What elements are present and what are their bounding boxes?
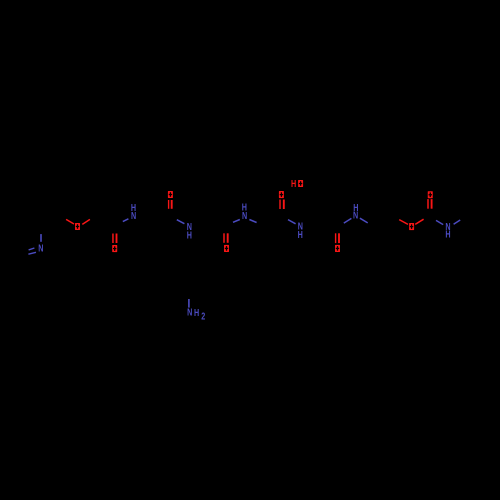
carbonyl oxygen O4 label (red box with plus counter)	[224, 245, 229, 252]
carbonyl C=O #3 double bond (red half, line 2)	[227, 233, 229, 243]
svg-text:N: N	[38, 242, 43, 253]
wire: C(=O)#5-N bond (blue half)	[344, 218, 352, 223]
carbonyl C=O #4 double bond (red half, line 2)	[283, 200, 285, 210]
svg-text:N: N	[242, 210, 247, 221]
svg-text:N: N	[353, 210, 358, 221]
svg-text:H: H	[298, 229, 303, 240]
wire: C(=O)#4-N bond (blue half)	[288, 220, 296, 224]
wire: C(=O)#2-N bond (blue half)	[177, 220, 185, 224]
wire: C(=O)#3-N bond (blue half)	[233, 220, 240, 223]
carbonyl C=O #2 double bond (red half, line 1)	[168, 200, 170, 209]
wire: O1-CH2 bond right (red half)	[82, 219, 90, 224]
svg-text:H: H	[291, 178, 296, 189]
svg-text:H: H	[187, 229, 192, 240]
carbonyl oxygen O7 label (red box with plus counter)	[335, 245, 340, 252]
wire: CH2-O1 bond left (red half)	[66, 219, 74, 224]
carbonyl C=O #5 double bond (red half, line 2)	[338, 233, 340, 243]
wire: pyridine N1=C6 double bond (blue half, line 1)	[29, 248, 35, 250]
svg-text:N: N	[187, 307, 192, 318]
wire: C(=O)#1-N bond (blue half)	[123, 219, 129, 222]
ester oxygen O8 label (red box with plus counter)	[409, 223, 414, 230]
svg-text:2: 2	[201, 310, 205, 321]
carbonyl oxygen O5 label (red box with plus counter)	[279, 191, 284, 198]
carbonyl C=O #4 double bond (red half, line 1)	[279, 200, 281, 210]
wire: N-CH2 bond (blue half)	[360, 218, 368, 223]
carbonyl oxygen O2 label (red box with plus counter)	[112, 245, 117, 252]
carbonyl C=O #1 double bond (red half, line 1)	[112, 234, 114, 244]
carbonyl C=O #2 double bond (red half, line 2)	[171, 200, 173, 209]
carbonyl C=O #1 double bond (red half, line 2)	[116, 234, 118, 244]
wire: pyridine N1=C6 double bond (blue half, line 2)	[28, 252, 36, 254]
svg-text:H: H	[194, 307, 199, 318]
wire: O8-C(=O) bond (red half)	[415, 219, 423, 224]
wire: CH2-O8 bond (red half)	[399, 220, 408, 225]
hydroxyl oxygen O6 label (red box with plus counter)	[298, 180, 303, 187]
carbonyl oxygen O3 label (red box with plus counter)	[168, 191, 173, 198]
carbonyl C=O #5 double bond (red half, line 1)	[335, 233, 337, 243]
wire: phenyl C-NH2 bond (blue half)	[188, 299, 190, 308]
wire: C(=O)#6-N bond (blue half)	[436, 220, 443, 224]
svg-text:N: N	[131, 210, 136, 221]
wire: N-CH2 terminal bond (blue half)	[454, 220, 461, 224]
wire: pyridine N1-C2 bond (blue half)	[40, 234, 42, 242]
wire: N-CH bond (blue half)	[249, 220, 256, 223]
ether oxygen O1 label (red box with plus counter)	[75, 223, 80, 230]
carbonyl C=O #6 double bond (red half, line 2)	[431, 199, 433, 209]
svg-text:H: H	[445, 228, 450, 239]
carbamate oxygen O9 label (red box with plus counter)	[428, 191, 433, 198]
carbonyl C=O #6 double bond (red half, line 1)	[427, 199, 429, 209]
carbonyl C=O #3 double bond (red half, line 1)	[223, 233, 225, 243]
